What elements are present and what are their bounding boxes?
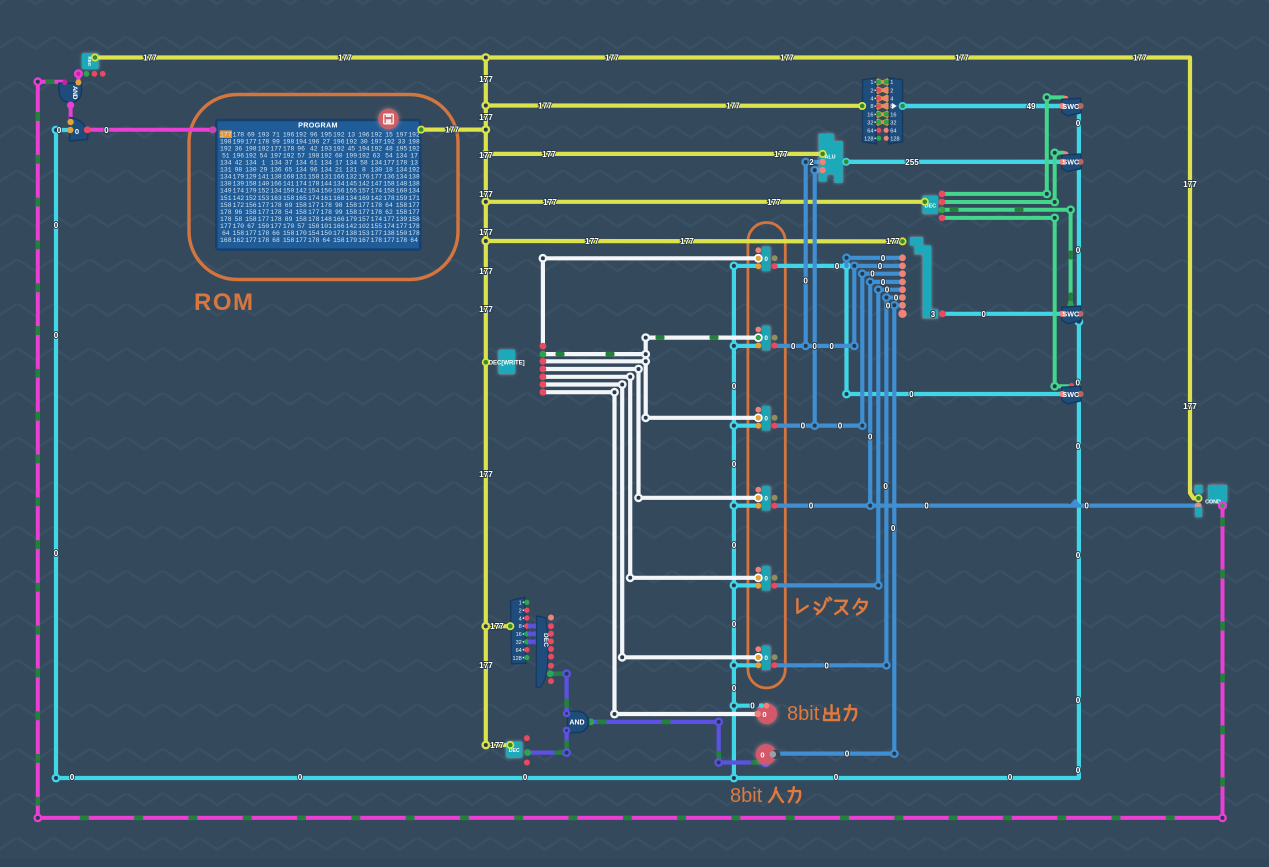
pin SWC4 right — [1077, 391, 1083, 397]
svg-text:DEC[WRITE]: DEC[WRITE] — [489, 361, 525, 367]
gate AND1 (top-left) — [59, 83, 82, 103]
node yellow junction 57.5 — [481, 53, 490, 62]
pin blue mux row 3 — [899, 270, 906, 277]
component DEC[WRITE] — [498, 350, 515, 374]
svg-text:177: 177 — [143, 54, 157, 63]
svg-text:0: 0 — [886, 301, 891, 310]
node cyan bus junction 665.3 — [730, 661, 739, 670]
svg-text:177: 177 — [774, 150, 788, 159]
svg-text:177: 177 — [680, 237, 694, 246]
svg-text:16: 16 — [867, 113, 873, 119]
svg-text:PROGRAM: PROGRAM — [298, 121, 338, 130]
node cyan bus junction 705.7 — [730, 701, 739, 710]
pin purple AND output — [588, 719, 595, 726]
component byte splitter-maker — [863, 78, 877, 144]
pin 8bit output enable — [764, 703, 770, 709]
pin REG magenta output — [74, 69, 83, 78]
wire cyan stub to register 4 — [734, 504, 758, 508]
svg-text:128: 128 — [864, 137, 873, 143]
svg-text:0: 0 — [829, 342, 834, 351]
component DEC splitter (bottom) — [511, 597, 526, 664]
wire yellow branch to ALU — [486, 152, 823, 156]
pin COND condition input — [1195, 494, 1203, 502]
svg-text:0: 0 — [1076, 766, 1081, 775]
pin 8bit output data input — [755, 711, 761, 717]
pin blue mux row 2 — [899, 263, 906, 270]
svg-text:SWC: SWC — [1062, 390, 1079, 399]
svg-text:192361981921771789642193192451: 1923619819217717896421931924519419248195… — [220, 146, 420, 153]
switch SWC2 — [1062, 154, 1081, 172]
svg-text:3: 3 — [931, 310, 936, 319]
svg-text:177: 177 — [479, 75, 493, 84]
wire purple AND output to 8bit input control — [591, 722, 761, 763]
svg-text:0: 0 — [732, 382, 737, 391]
pins DEC block outputs — [524, 735, 530, 741]
svg-text:4: 4 — [519, 616, 522, 622]
svg-text:128: 128 — [890, 137, 899, 143]
svg-text:149174179152134150142154150156: 1491741791521341501421541501561551571741… — [220, 188, 420, 195]
svg-text:0: 0 — [868, 433, 873, 442]
wire bridge hop over cyan — [1067, 499, 1083, 508]
node white corner w5b — [626, 573, 635, 582]
node blue reg3 junction — [810, 421, 819, 430]
wire white write-enable 1 to register 1 — [543, 258, 758, 346]
wire blue mux input row 7 — [894, 303, 902, 307]
svg-text:64: 64 — [890, 129, 896, 135]
svg-text:0: 0 — [1076, 379, 1081, 388]
node blue stair 3 — [858, 269, 867, 278]
svg-text:177: 177 — [538, 102, 552, 111]
node blue stair 5 — [874, 285, 883, 294]
wire blue 8bit input to mux row7 — [775, 751, 894, 755]
annotation ROM enclosure — [189, 95, 458, 280]
svg-text:0: 0 — [298, 773, 303, 782]
svg-text:0: 0 — [75, 127, 79, 136]
svg-text:177: 177 — [1133, 54, 1147, 63]
node blue corner r3 — [858, 421, 867, 430]
svg-text:AND: AND — [569, 720, 584, 727]
node yellow junction 105.5 — [481, 101, 490, 110]
wire magenta counter output to ROM address input — [87, 128, 213, 132]
svg-text:177: 177 — [767, 198, 781, 207]
counter PC — [70, 118, 88, 142]
svg-text:0: 0 — [104, 126, 109, 135]
wire green DEC out1 to SWC1 select — [942, 97, 1064, 193]
svg-text:0: 0 — [54, 221, 59, 230]
wire blue mux input row 3 — [862, 272, 902, 276]
DEC splitter purple links — [528, 623, 533, 628]
wire magenta condition loop (COND output -> bottom -> left edge -> AND) — [38, 82, 1223, 818]
pin byte pipe input — [899, 237, 907, 245]
component DEC decoder — [923, 196, 939, 214]
node blue reg4 junction — [866, 501, 875, 510]
node cyan reg1 corner — [842, 262, 851, 271]
pin ALU output — [842, 158, 850, 166]
svg-text:177: 177 — [780, 54, 794, 63]
device 8bit output — [757, 704, 777, 724]
svg-text:177: 177 — [479, 190, 493, 199]
svg-text:0: 0 — [909, 390, 914, 399]
wire cyan stub to register 3 — [734, 424, 758, 428]
pin AND1 output — [67, 102, 74, 109]
node white corner w4a — [634, 365, 643, 374]
pins AND2 inputs — [563, 710, 571, 718]
svg-text:177: 177 — [886, 237, 900, 246]
node blue corner r2 — [850, 342, 859, 351]
node cyan corner 394 — [842, 390, 851, 399]
ROM save icon — [378, 109, 398, 129]
wire blue register4 output to COND — [775, 504, 1068, 508]
svg-text:8bit: 8bit — [787, 703, 820, 725]
svg-text:255: 255 — [905, 158, 919, 167]
svg-text:177: 177 — [542, 150, 556, 159]
pin DEC input — [921, 198, 929, 206]
svg-text:0: 0 — [732, 460, 737, 469]
switch SWC3 — [1062, 306, 1081, 324]
svg-text:8: 8 — [870, 104, 873, 110]
svg-text:641581771786615817015415017713: 6415817717866158170154150177138153177138… — [222, 230, 420, 237]
svg-text:0: 0 — [762, 710, 766, 719]
node cyan bus junction 425.6 — [730, 421, 739, 430]
node cyan bottom-left corner — [52, 774, 61, 783]
node magenta bottom-right corner — [1218, 814, 1227, 823]
pin SWC3 right — [1077, 311, 1083, 317]
component DEC block (bottom) — [506, 742, 522, 758]
svg-text:4: 4 — [870, 97, 873, 103]
svg-text:0: 0 — [764, 655, 768, 662]
svg-text:177: 177 — [726, 102, 740, 111]
svg-text:64: 64 — [516, 648, 522, 654]
pins ALU data inputs — [819, 159, 825, 165]
svg-text:177: 177 — [490, 622, 504, 631]
DEC splitter output pins — [548, 615, 554, 621]
wire cyan stub to register 6 — [734, 663, 758, 667]
svg-text:177178691937119619296195192131: 1771786919371196192961951921319619215197… — [220, 132, 420, 139]
svg-text:0: 0 — [70, 773, 75, 782]
pin SWC2 left — [1059, 159, 1065, 165]
pin white wire start dots — [540, 343, 547, 350]
svg-text:SWC: SWC — [1062, 158, 1079, 167]
pin blue mux row 6 — [899, 294, 906, 301]
wire teal byte pipe — [910, 241, 938, 314]
node yellow junction 241 — [481, 237, 490, 246]
pin SWC4 left — [1059, 391, 1065, 397]
svg-text:AND: AND — [71, 86, 78, 100]
svg-text:0: 0 — [809, 502, 814, 511]
wire blue mux input row 4 — [870, 280, 902, 284]
wire white write-enable 2 to register 2 (active) — [543, 338, 758, 355]
svg-text:0: 0 — [760, 750, 764, 759]
wire white write-enable 6 to register 6 — [543, 385, 758, 658]
svg-text:2: 2 — [870, 88, 873, 94]
node white corner w7b — [610, 710, 619, 719]
gate AND2 (bottom) — [568, 711, 589, 732]
svg-text:0: 0 — [1076, 551, 1081, 560]
wire yellow branch to DEC — [486, 200, 925, 204]
wire white write-enable 5 to register 5 — [543, 377, 758, 578]
pin blue COND input — [1195, 502, 1202, 509]
switch SWC4 — [1062, 386, 1081, 404]
node white corner w2a — [641, 350, 650, 359]
wire yellow stub to DEC splitter bit 8 — [486, 624, 511, 628]
svg-text:32: 32 — [516, 640, 522, 646]
svg-text:511961925419719257198192601991: 5119619254197192571981926019919263541341… — [222, 153, 418, 160]
svg-text:0: 0 — [1084, 502, 1089, 511]
node white corner w7a — [610, 388, 619, 397]
wire cyan stub to 8bit output enable — [734, 704, 762, 708]
svg-text:8: 8 — [519, 624, 522, 630]
node cyan bus junction 585.4 — [730, 581, 739, 590]
svg-text:0: 0 — [803, 277, 808, 286]
svg-text:0: 0 — [981, 310, 986, 319]
wire cyan byte splitter out 49 to SWC1 — [903, 104, 1063, 108]
svg-text:1: 1 — [519, 601, 522, 607]
svg-text:178581581771788915817814816617: 1785815817717889158178148166179157174177… — [220, 216, 420, 223]
svg-text:0: 0 — [57, 126, 62, 135]
wire green DEC out4 to SWC4 select — [942, 218, 1069, 386]
pin SWC1 left — [1059, 103, 1065, 109]
svg-text:0: 0 — [764, 415, 768, 422]
annotation label registers (katakana) — [797, 599, 807, 613]
pin AND1 inputs — [62, 80, 67, 85]
component ROM program memory — [216, 120, 420, 250]
pin blue mux row 8 — [898, 310, 906, 318]
wire magenta AND output to counter — [69, 105, 73, 122]
svg-text:0: 0 — [834, 773, 839, 782]
svg-text:0: 0 — [824, 661, 829, 670]
pin SWC2 right — [1077, 159, 1083, 165]
svg-text:177: 177 — [479, 151, 493, 160]
component COND — [1195, 485, 1227, 517]
svg-text:2: 2 — [519, 608, 522, 614]
svg-text:0: 0 — [764, 495, 768, 502]
svg-text:DEC: DEC — [542, 633, 549, 647]
svg-text:4: 4 — [890, 97, 893, 103]
wire magenta REG pin to AND input — [76, 74, 80, 83]
pin SWC1 right — [1077, 103, 1083, 109]
svg-text:0: 0 — [894, 294, 899, 303]
svg-text:32: 32 — [890, 120, 896, 126]
node blue ALU inC — [810, 166, 819, 175]
wire yellow ROM output — [421, 128, 486, 132]
svg-text:8bit: 8bit — [730, 785, 763, 807]
wire blue ALU input C vertical — [813, 170, 817, 426]
wire blue ALU input B vertical — [804, 162, 808, 346]
svg-text:ROM: ROM — [194, 289, 255, 316]
svg-text:0: 0 — [523, 773, 528, 782]
svg-text:0: 0 — [54, 331, 59, 340]
svg-text:64: 64 — [867, 129, 873, 135]
wire blue register3 output row — [775, 424, 863, 428]
register R4 — [762, 486, 770, 511]
svg-text:177: 177 — [490, 741, 504, 750]
annotation register enclosure — [748, 223, 785, 689]
register block REG (top-left) — [82, 53, 99, 69]
svg-text:177: 177 — [479, 305, 493, 314]
node white corner w3b — [641, 413, 650, 422]
svg-text:177: 177 — [955, 54, 969, 63]
wire white write-enable 3 to register 3 — [543, 361, 758, 418]
pin ALU yellow input — [819, 150, 827, 158]
node blue ALU inB — [801, 158, 810, 167]
node blue stair 2 — [850, 262, 859, 271]
svg-text:1: 1 — [870, 80, 873, 86]
svg-text:177: 177 — [605, 54, 619, 63]
wire green DEC out2 to SWC2 select — [942, 153, 1064, 202]
register R3 — [762, 406, 770, 431]
node blue stair 4 — [866, 278, 875, 287]
svg-text:177: 177 — [445, 126, 459, 135]
wire purple DEC block out to AND input2 — [528, 733, 567, 753]
wire cyan stub to register 1 — [734, 264, 758, 268]
pin ROM address input — [209, 126, 216, 133]
node magenta top-left — [33, 77, 42, 86]
node blue corner r5 — [874, 581, 883, 590]
svg-text:0: 0 — [764, 256, 768, 263]
wire cyan stub to register 2 — [734, 344, 758, 348]
svg-text:134179129141138168131158131166: 1341791291411381681311581311661321761771… — [220, 174, 420, 181]
svg-text:0: 0 — [924, 502, 929, 511]
wire white write-enable 7 to 8bit output — [543, 392, 756, 714]
svg-text:151142152153163158165174161168: 1511421521531631581651741611681341691421… — [220, 195, 420, 202]
node cyan bus junction 778 — [730, 774, 739, 783]
pin SWC3 left — [1059, 311, 1065, 317]
node yellow corner bottom — [481, 741, 490, 750]
svg-text:0: 0 — [791, 342, 796, 351]
pin blue mux row 1 — [899, 254, 906, 261]
node blue stair 7 — [890, 301, 899, 310]
node white corner w1 — [539, 254, 548, 263]
svg-text:177: 177 — [338, 54, 352, 63]
svg-text:130139158140166141174178144134: 1301391581401661411741781441341451421471… — [220, 181, 420, 188]
node yellow junction 129.6 — [481, 125, 490, 134]
wire yellow vertical bus — [484, 58, 488, 746]
pin byte pipe output — [939, 310, 946, 317]
node purple 8bit input pin — [761, 759, 769, 767]
svg-text:SWC: SWC — [1062, 102, 1079, 111]
wire purple DEC splitter out to AND input1 — [550, 674, 566, 711]
svg-text:158172156177178691581771789815: 1581721561771786915817717898158177178641… — [220, 202, 420, 209]
svg-text:0: 0 — [732, 541, 737, 550]
pin DEC block input — [506, 741, 514, 749]
node COND output — [1218, 501, 1227, 510]
svg-text:0: 0 — [891, 524, 896, 533]
node white corner w4b — [634, 493, 643, 502]
svg-text:0: 0 — [1076, 246, 1081, 255]
wire blue mux input row 2 — [854, 264, 902, 268]
node magenta bottom-left corner — [33, 814, 42, 823]
wire green DEC out3 to SWC3 select (active) — [942, 210, 1071, 304]
svg-text:16: 16 — [516, 632, 522, 638]
wire blue register2 output row — [775, 344, 855, 348]
wire cyan byte pipe out to SWC3 — [943, 312, 1063, 316]
svg-text:177: 177 — [543, 198, 557, 207]
node blue corner r6 — [882, 661, 891, 670]
wire cyan register bus — [732, 266, 736, 778]
wire blue mux input row 1 — [847, 256, 903, 260]
svg-text:0: 0 — [838, 422, 843, 431]
node white corner w6a — [618, 380, 627, 389]
svg-text:128: 128 — [512, 656, 521, 662]
svg-text:0: 0 — [764, 335, 768, 342]
wire yellow top bus (REG out -> top edge -> right edge -> COND) — [95, 58, 1199, 499]
svg-text:1: 1 — [890, 80, 893, 86]
node white corner w5a — [626, 372, 635, 381]
svg-text:178961581771785415817717899158: 1789615817717854158177178991581771786215… — [220, 209, 420, 216]
wire cyan stub to counter — [56, 128, 70, 132]
wire cyan ALU out 255 to SWC2 — [846, 160, 1062, 164]
svg-text:2: 2 — [809, 158, 814, 167]
component ALU — [819, 134, 843, 183]
DEC splitter flag — [536, 616, 548, 688]
svg-text:0: 0 — [732, 620, 737, 629]
svg-text:0: 0 — [1076, 119, 1081, 128]
pin DEC splitter bit8 input — [506, 622, 514, 630]
pin blue ALU inC — [819, 167, 826, 174]
register R2 — [762, 326, 770, 351]
svg-text:177: 177 — [479, 267, 493, 276]
node blue corner in — [890, 749, 899, 758]
register R1 — [762, 247, 770, 272]
wire blue mux input row 6 — [886, 295, 902, 299]
node cyan bus junction 345.9 — [730, 342, 739, 351]
pin 8bit input data output — [770, 751, 777, 758]
node cyan below SWC3 — [1075, 317, 1084, 326]
pin ROM data output — [417, 126, 425, 134]
svg-text:0: 0 — [1076, 696, 1081, 705]
svg-text:177: 177 — [1183, 402, 1197, 411]
svg-text:177: 177 — [479, 661, 493, 670]
node yellow junction 626.2 — [481, 622, 490, 631]
svg-text:0: 0 — [750, 702, 755, 711]
svg-text:0: 0 — [801, 421, 806, 430]
svg-text:32: 32 — [867, 120, 873, 126]
wire yellow branch to byte pipe — [486, 239, 903, 244]
pin blue mux row 5 — [899, 286, 906, 293]
svg-text:0: 0 — [54, 549, 59, 558]
svg-text:16: 16 — [890, 113, 896, 119]
svg-text:0: 0 — [1076, 442, 1081, 451]
pin counter output — [84, 126, 91, 133]
node blue stair 6 — [882, 293, 891, 302]
node blue reg2 junction — [801, 342, 810, 351]
byte splitter input/output pins — [858, 102, 866, 110]
svg-text:0: 0 — [885, 286, 890, 295]
register R6 — [762, 646, 770, 671]
node white corner w3a — [641, 357, 650, 366]
svg-text:0: 0 — [812, 342, 817, 351]
svg-text:177170671501771705715010116614: 1771706715017717057150101166142102155174… — [220, 223, 420, 230]
svg-text:131981302913665134961342113181: 1319813029136651349613421131813018134192 — [220, 167, 420, 174]
node white corner w2b — [641, 333, 650, 342]
svg-text:177: 177 — [479, 470, 493, 479]
node yellow junction 153.9 — [481, 150, 490, 159]
node yellow junction 201.8 — [481, 197, 490, 206]
node cyan counter stub — [52, 126, 61, 135]
register R5 — [762, 566, 770, 591]
wire white write-enable 4 to register 4 — [543, 369, 758, 498]
8bit output cyan stub end — [759, 703, 764, 708]
pin counter inputs — [67, 119, 73, 125]
svg-text:0: 0 — [883, 482, 888, 491]
pin blue mux row 4 — [899, 279, 906, 286]
pin blue ALU inB — [819, 159, 826, 166]
pin DEC[WRITE] input — [482, 358, 490, 366]
svg-text:0: 0 — [878, 262, 883, 271]
svg-text:2: 2 — [890, 88, 893, 94]
wire yellow branch to byte splitter — [486, 103, 862, 108]
device 8bit input — [756, 744, 776, 764]
